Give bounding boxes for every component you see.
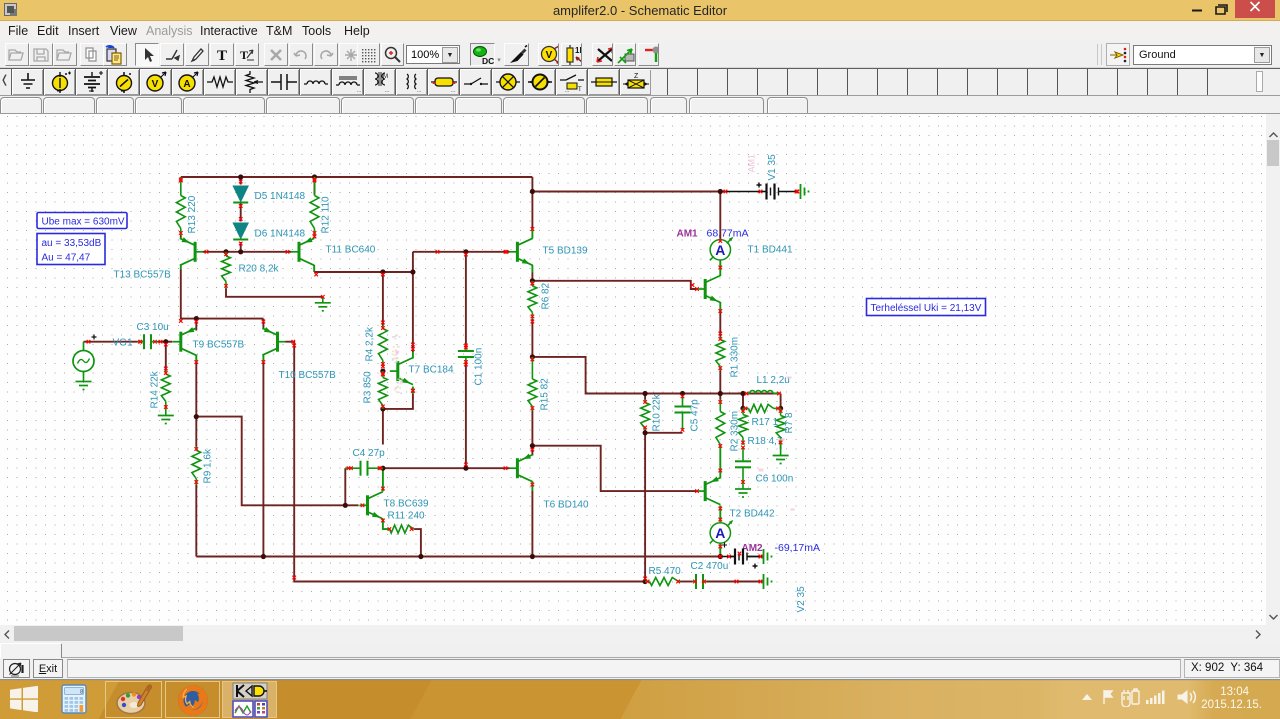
svg-text:R5 470: R5 470: [649, 566, 682, 577]
resistor R11 240: [387, 525, 414, 533]
wire T10 emitter stub: [262, 319, 264, 329]
junction V+ / battery: [530, 189, 535, 194]
diode D5 1N4148: [233, 186, 248, 203]
transistor T6 BD140 (PNP): [509, 455, 532, 482]
junction bus / R10: [643, 391, 648, 396]
wire T10 collector lead: [262, 355, 264, 364]
resistor R20 8,2k: [222, 252, 231, 288]
wire: [719, 394, 721, 400]
wire C5 return: [645, 432, 682, 434]
resistor R3 850: [379, 371, 388, 409]
wire: [742, 394, 744, 409]
junction top rail / R12: [312, 174, 317, 179]
wire R2 to T2 emitter: [719, 449, 721, 479]
capacitor C6 100n: [735, 447, 751, 484]
resistor R14 22k: [161, 371, 170, 410]
junction T5 base / T11 collector: [410, 269, 415, 274]
svg-text:L1 2,2u: L1 2,2u: [757, 375, 790, 386]
wire to D5: [240, 177, 242, 185]
schematic canvas: [0, 114, 1266, 625]
ground (C6): [735, 483, 751, 497]
annotation box au/Au gain values: [37, 234, 105, 265]
svg-text:Ube max = 630mV: Ube max = 630mV: [42, 217, 125, 228]
wire C1 top leg: [465, 252, 467, 347]
ammeter AM1: [710, 238, 732, 260]
wire C2 to terminal: [707, 581, 763, 583]
wire T8 collector up: [382, 471, 384, 492]
junction C4 / T8 collector: [380, 466, 385, 471]
wire to mid bus: [532, 357, 743, 394]
wire C1 bottom leg: [465, 363, 467, 469]
junction bus1 / T6: [530, 554, 535, 559]
svg-text:A: A: [183, 79, 190, 90]
junction R6/R15: [530, 354, 535, 359]
wire T9 collector down: [195, 363, 197, 447]
wire T6 collector to bus1: [531, 491, 533, 557]
svg-text:C6 100n: C6 100n: [756, 474, 794, 485]
junction bus1 / T10: [261, 554, 266, 559]
junction battery / AM1: [718, 189, 723, 194]
junction R6 top: [530, 278, 535, 283]
svg-text:R2 330m: R2 330m: [730, 411, 741, 452]
ground (R20): [315, 297, 331, 311]
resistor R4 2,2k: [379, 326, 388, 367]
title bar: [0, 0, 1280, 21]
svg-text:AM1: AM1: [747, 154, 757, 173]
svg-text:V: V: [546, 50, 553, 61]
resistor R5 470: [645, 578, 680, 586]
resistor R12 110: [310, 177, 319, 236]
junction T9 emitter: [194, 316, 199, 321]
svg-text:au = 33,53dB: au = 33,53dB: [42, 238, 102, 249]
svg-text:AM1: AM1: [677, 229, 699, 240]
wire AM1 to T1 collector: [719, 260, 721, 276]
wire R20 to ground: [226, 288, 323, 297]
svg-text:R14 22k: R14 22k: [150, 370, 161, 408]
svg-text:-69,17mA: -69,17mA: [775, 542, 821, 554]
component category tabs: [0, 96, 1280, 114]
diode D6 1N4148: [233, 223, 248, 240]
wire to R4: [382, 272, 384, 326]
svg-text:...: ...: [385, 88, 389, 94]
svg-text:R4 2,2k: R4 2,2k: [365, 326, 376, 361]
wire bottom bus1: [196, 556, 720, 558]
toolbar 1: [0, 41, 1280, 68]
svg-text:R12 110: R12 110: [321, 196, 332, 234]
transistor T8 BC639 (NPN): [360, 492, 383, 519]
svg-text:T5 BD139: T5 BD139: [543, 246, 588, 257]
wire: [180, 238, 182, 240]
junction base rail / R20: [223, 249, 228, 254]
junction R17 / R18: [740, 406, 745, 411]
resistor R9 1,6k: [192, 447, 201, 485]
wire: [644, 430, 646, 433]
svg-text:...: ...: [417, 88, 421, 94]
battery V1 35: [757, 183, 799, 200]
svg-text:R17 1: R17 1: [752, 417, 779, 428]
battery V2 35: [727, 549, 763, 569]
wire T1 emitter to R1: [719, 313, 721, 337]
svg-text:Z: Z: [634, 73, 639, 80]
wire R6 to R15: [531, 319, 533, 357]
wire to AM1: [719, 192, 721, 240]
svg-text:D5 1N4148: D5 1N4148: [255, 191, 306, 202]
wire T7 collector lead: [412, 352, 414, 359]
resistor R13 220: [176, 177, 185, 236]
svg-text:V: V: [151, 79, 158, 90]
junction bus / C5: [680, 391, 685, 396]
wire R15 to T6 emitter: [531, 411, 533, 456]
wire L1 to R17: [780, 394, 782, 409]
wire R11 to bus1: [414, 529, 421, 556]
wire to R12: [314, 177, 316, 195]
svg-text:T7 BC184: T7 BC184: [409, 365, 454, 376]
junction bus1 / AM2 / V2: [718, 554, 723, 559]
svg-text:T6 BD140: T6 BD140: [544, 500, 589, 511]
wire V2 to terminal: [748, 556, 763, 558]
wire R7 to ground: [780, 445, 782, 450]
junction C1 / T5 base rail: [463, 249, 468, 254]
svg-text:T9 BC557B: T9 BC557B: [193, 340, 245, 351]
junction bus2 / R5: [643, 579, 648, 584]
vertical scrollbar: [1266, 114, 1280, 625]
label + (AM2 polarity): [722, 543, 727, 548]
resistor R17 1: [743, 404, 781, 412]
wire R9 to bus: [195, 485, 197, 557]
wire T6 base rail: [383, 467, 510, 469]
wire T5 emitter lead: [531, 265, 533, 273]
svg-text:R9 1,6k: R9 1,6k: [203, 448, 214, 483]
resistor R1 330m: [716, 337, 725, 371]
svg-text:R7 8: R7 8: [784, 412, 795, 434]
wire T13 collector lead: [180, 265, 182, 270]
terminal (output): [764, 574, 772, 589]
wire R1 to bus: [719, 371, 721, 394]
wire: [158, 341, 166, 343]
svg-text:T1 BD441: T1 BD441: [748, 245, 793, 256]
svg-text:R3 850: R3 850: [363, 371, 374, 404]
resistor R6 82: [528, 281, 537, 319]
wire R10 col to bus2: [644, 433, 646, 582]
svg-text:T10 BC557B: T10 BC557B: [279, 370, 337, 381]
wire to T8 base: [196, 417, 358, 506]
junction R15 / T6 emitter: [530, 443, 535, 448]
wire C3 to T9 base: [166, 341, 173, 343]
svg-text:DC: DC: [482, 56, 494, 66]
svg-text:D6 1N4148: D6 1N4148: [255, 229, 306, 240]
wire T11 collector stub: [313, 265, 315, 272]
resistor R2 330m: [716, 400, 725, 449]
wire T7 emitter return: [383, 394, 413, 409]
source VG1: [73, 342, 94, 376]
wire V+ column: [531, 177, 533, 230]
wire D5 to D6: [240, 204, 242, 222]
annotation box Ube max = 630mV: [37, 213, 127, 229]
wire T2 collector to AM2: [719, 506, 721, 522]
capacitor C1 100n: [458, 347, 474, 364]
svg-text:R1 330m: R1 330m: [730, 337, 741, 378]
wire to battery V2: [720, 556, 735, 558]
terminal (V2 return): [764, 549, 772, 564]
capacitor C3 10u: [138, 334, 158, 349]
junction top rail / D5: [238, 174, 243, 179]
ghost artifact sparkles near R4/T7: [392, 335, 795, 510]
svg-text:A: A: [715, 242, 725, 258]
wire: [345, 467, 352, 469]
transistor T2 BD442 (PNP): [697, 478, 720, 505]
wire T5 emitter to R6: [531, 273, 533, 281]
svg-text:T: T: [578, 87, 582, 93]
wire: [180, 177, 182, 181]
junction bus / L1: [740, 391, 745, 396]
wire T11 collector rail: [314, 271, 413, 273]
junction R4 / T7 base: [380, 369, 385, 374]
junction C1 / T6 base: [463, 466, 468, 471]
svg-text:C4 27p: C4 27p: [353, 448, 386, 459]
svg-text:1K: 1K: [575, 46, 581, 55]
wire emitter rail T9 T10: [181, 270, 264, 319]
svg-text:R11 240: R11 240: [388, 511, 426, 522]
capacitor C4 27p: [349, 461, 383, 476]
resistor R18 4,7: [739, 408, 748, 445]
svg-text:R6 82: R6 82: [541, 282, 552, 309]
svg-text:M: M: [383, 74, 388, 80]
wire L1 frame top: [743, 393, 781, 395]
annotation box Terhelessel Uki: [867, 299, 986, 316]
svg-text:68,77mA: 68,77mA: [707, 228, 749, 240]
wire R3 bottom to C4 col: [382, 409, 384, 445]
svg-text:R15 82: R15 82: [540, 378, 551, 411]
junction bus / R1 R2: [718, 391, 723, 396]
capacitor C2 470u: [693, 574, 707, 589]
wire T10 base feedback to bus2: [286, 342, 646, 582]
transistor T11 BC640 (PNP): [291, 238, 314, 265]
svg-text:T: T: [216, 48, 226, 64]
junction bus1 / R11: [418, 554, 423, 559]
svg-text:Terheléssel Uki = 21,13V: Terheléssel Uki = 21,13V: [871, 303, 982, 314]
svg-text:AM2: AM2: [742, 543, 764, 554]
wire T9 collector lead: [195, 355, 197, 364]
transistor T1 BD441 (NPN): [697, 276, 720, 303]
toolbar 2 : component bar: [0, 68, 1280, 96]
svg-text:C5 47p: C5 47p: [690, 399, 701, 432]
wire: [644, 394, 646, 400]
wire: [678, 581, 693, 583]
capacitor C5 47p: [675, 395, 691, 431]
terminal (V1 return): [801, 184, 809, 199]
junction R10 / C5 return: [643, 430, 648, 435]
wire T5 base column / T7 collector: [412, 252, 414, 352]
wire VG1 to C3: [84, 341, 138, 343]
ammeter AM2: [710, 521, 732, 543]
wire to T1 base: [532, 281, 696, 289]
wire to T2 base: [532, 446, 696, 491]
wire to battery V1: [727, 191, 761, 193]
horizontal scrollbar: [0, 625, 1280, 642]
svg-text:...: ...: [451, 88, 455, 94]
ground (R7): [773, 450, 789, 464]
wire T1 emitter lead: [719, 302, 721, 313]
transistor T13 BC557B (PNP): [180, 238, 203, 265]
junction R4 top: [380, 269, 385, 274]
svg-text:T2 BD442: T2 BD442: [730, 509, 775, 520]
svg-text:T: T: [239, 48, 247, 62]
svg-text:T11 BC640: T11 BC640: [326, 245, 376, 256]
svg-text:A: A: [715, 525, 725, 541]
wire to R14: [165, 342, 167, 371]
resistor R15 82: [528, 357, 537, 411]
wire T10 collector down: [262, 363, 264, 557]
status bar: [0, 658, 1280, 679]
wire T7 emitter lead: [412, 387, 414, 395]
wire T6 collector lead: [531, 482, 533, 492]
transistor T9 BC557B (PNP): [173, 328, 196, 355]
resistor R7 8: [776, 408, 785, 445]
resistor R10 22k: [641, 400, 650, 431]
svg-text:Au = 47,47: Au = 47,47: [42, 253, 91, 264]
transistor T10 BC557B (PNP, mirrored): [262, 328, 285, 355]
svg-text:R13 220: R13 220: [187, 195, 198, 233]
transistor T5 BD139 (NPN): [509, 238, 532, 265]
transistor T7 BC184 (NPN): [390, 358, 413, 385]
ground (R14): [158, 410, 174, 424]
ground (VG1): [76, 376, 92, 390]
svg-text:T8 BC639: T8 BC639: [384, 499, 429, 510]
svg-text:V2 35: V2 35: [796, 586, 807, 613]
svg-text:C3 10u: C3 10u: [137, 322, 169, 333]
wire: [314, 236, 316, 239]
wire base rail T13-T11: [203, 251, 292, 253]
svg-text:T13 BC557B: T13 BC557B: [114, 270, 172, 281]
junction R17 / R7: [778, 406, 783, 411]
wire D6 to base rail: [240, 242, 242, 252]
menu bar: [0, 22, 1280, 41]
svg-text:VG1: VG1: [113, 338, 133, 349]
wire top supply rail: [181, 176, 533, 178]
svg-text:C2 470u: C2 470u: [691, 561, 729, 572]
junction R3 bottom: [380, 406, 385, 411]
wire T8 emitter to R11: [383, 519, 390, 530]
svg-text:...: ...: [565, 88, 569, 94]
svg-text:...: ...: [357, 88, 361, 94]
wire to T5 base: [413, 251, 510, 253]
taskbar: [0, 679, 1280, 719]
wire: [180, 236, 182, 238]
wire C4 left leg: [344, 468, 346, 505]
wire T5 collector lead: [531, 230, 533, 239]
svg-text:C1 100n: C1 100n: [474, 348, 485, 386]
junction C4 leg / T8 base: [343, 503, 348, 508]
svg-text:V1 35: V1 35: [767, 154, 778, 181]
wire AM2 to bus1: [719, 544, 721, 557]
svg-text:R20 8,2k: R20 8,2k: [239, 264, 280, 275]
wire: [195, 319, 197, 331]
inductor L1 2,2u: [745, 391, 781, 394]
bottom sheet tab: [0, 642, 1280, 658]
wire battery V1 feed: [532, 191, 726, 193]
svg-text:R10 22k: R10 22k: [652, 393, 663, 431]
junction base rail / D6: [238, 249, 243, 254]
junction R9 / T8 branch: [194, 414, 199, 419]
junction C3 / R14: [163, 339, 168, 344]
svg-text:R18 4,7: R18 4,7: [748, 436, 783, 447]
